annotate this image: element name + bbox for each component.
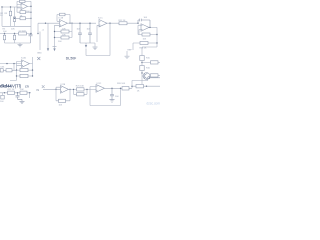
node I — [69, 23, 70, 24]
resistor R19 feedback — [17, 68, 33, 71]
svg-text:10K: 10K — [20, 89, 24, 91]
resistor R13 feedback — [138, 25, 157, 36]
op-amp input polarity marks — [22, 5, 143, 92]
wire U3 non-inverting bias — [97, 25, 99, 42]
node J1 — [10, 6, 11, 7]
svg-text:10K: 10K — [143, 38, 147, 40]
node AL — [111, 88, 112, 89]
svg-text:IC2A: IC2A — [21, 57, 26, 60]
node AE — [17, 92, 18, 93]
ground — [125, 51, 130, 59]
node F — [14, 33, 15, 34]
node G — [19, 33, 20, 34]
resistor R18 — [151, 74, 161, 77]
U3 marks — [99, 21, 102, 25]
wire drop x14 — [13, 64, 15, 71]
transistor Q1 — [142, 73, 150, 80]
node AA — [32, 75, 33, 76]
resistor R2 — [13, 17, 15, 22]
svg-text:R15: R15 — [146, 57, 151, 59]
op-amp U1 — [21, 3, 28, 10]
op-amp U4 — [141, 24, 149, 31]
wire lower-left input bus — [0, 63, 22, 65]
wire riser x132 — [132, 79, 148, 86]
node E — [4, 33, 5, 34]
resistor R11 — [55, 23, 73, 39]
svg-text:IC1B: IC1B — [59, 17, 64, 19]
svg-text:R14 1K: R14 1K — [140, 47, 148, 49]
svg-text:104: 104 — [115, 96, 119, 98]
svg-text:104: 104 — [144, 17, 148, 19]
capacitor C9 — [16, 93, 23, 101]
resistor R26 — [122, 87, 129, 90]
ground arrow 2 — [53, 48, 55, 51]
wire U7 output — [105, 86, 161, 88]
U1 marks — [21, 5, 24, 9]
wire drop x14.5 — [14, 7, 16, 26]
wire gnd rail left — [5, 43, 31, 44]
node Y — [13, 63, 14, 64]
resistor R20 — [17, 74, 33, 77]
node K — [54, 31, 55, 32]
ground arrow — [47, 48, 49, 51]
ground — [110, 100, 115, 102]
ground — [18, 45, 23, 47]
svg-text:REF: REF — [128, 49, 133, 51]
node AB — [16, 69, 17, 70]
svg-text:.V(Tl): .V(Tl) — [11, 84, 22, 89]
wire U1 output — [28, 1, 32, 33]
resistor R8 — [13, 34, 15, 44]
resistor R1 — [9, 11, 11, 16]
svg-text:IC2B: IC2B — [61, 84, 66, 86]
svg-text:103: 103 — [59, 105, 63, 107]
node M — [71, 23, 72, 24]
node A — [30, 12, 31, 13]
node AI — [73, 89, 74, 90]
wire right rail — [142, 47, 157, 84]
ground — [20, 101, 25, 103]
node Z — [32, 69, 33, 70]
node C — [30, 18, 31, 19]
power cross 2 — [42, 85, 45, 88]
node B — [14, 18, 15, 19]
U4 marks — [141, 26, 144, 30]
svg-text:10K: 10K — [62, 35, 66, 37]
svg-text:R22 1K: R22 1K — [8, 89, 16, 91]
wire U2 non-inverting — [55, 25, 60, 46]
terminal J2 — [0, 69, 3, 72]
wire U4 inputs — [138, 25, 141, 34]
svg-text:CN1: CN1 — [0, 67, 5, 69]
wire gnd rail mid — [80, 43, 95, 47]
node P — [109, 23, 110, 24]
resistor R16 — [140, 66, 144, 71]
wire U5 inputs — [10, 62, 22, 81]
U7 marks — [96, 86, 99, 90]
svg-text:R25 10K: R25 10K — [76, 85, 85, 87]
svg-text:IC1C: IC1C — [98, 17, 103, 19]
node E2 — [30, 33, 31, 34]
wire bus2 — [0, 33, 31, 35]
svg-text:10K: 10K — [11, 28, 15, 30]
svg-text:dzsc.com: dzsc.com — [147, 101, 161, 105]
node H — [45, 23, 46, 24]
resistor R27 — [136, 85, 144, 88]
node N — [79, 23, 80, 24]
resistor R12 series — [119, 22, 127, 25]
svg-text:IN: IN — [37, 88, 40, 92]
resistor R23 — [20, 91, 27, 94]
svg-text:cn: cn — [25, 84, 29, 88]
power cross — [37, 57, 40, 60]
op-amp U5 — [22, 60, 30, 68]
node AJ — [86, 89, 87, 90]
wire IN to U6 — [43, 88, 61, 90]
node W pad — [148, 77, 160, 79]
node AN — [146, 86, 147, 87]
capacitor C8 — [1, 93, 4, 99]
svg-text:104: 104 — [3, 31, 7, 33]
svg-text:104: 104 — [0, 101, 4, 103]
svg-text:IC2C: IC2C — [97, 83, 102, 85]
node J0 — [1, 6, 2, 7]
op-amp U7 — [96, 85, 105, 93]
resistor R5 — [3, 34, 5, 44]
wire loop down right of U3 — [86, 23, 110, 55]
node AF — [29, 92, 30, 93]
resistor R25 — [77, 88, 85, 91]
node E3 — [37, 33, 38, 34]
resistor R24 feedback loop — [56, 87, 70, 102]
svg-text:R16: R16 — [146, 67, 151, 69]
node AH — [69, 89, 70, 90]
wire U5 output — [30, 57, 33, 76]
node X — [6, 63, 7, 64]
node V — [141, 72, 142, 73]
svg-text:GND: GND — [37, 53, 42, 55]
resistor R4 — [15, 17, 32, 20]
wire U1 non-inverting input — [17, 7, 21, 9]
svg-text:R26 10K: R26 10K — [117, 83, 126, 85]
svg-text:1K: 1K — [137, 90, 140, 92]
resistor R15 — [140, 56, 144, 61]
wire drop AF — [29, 93, 31, 98]
node D — [30, 6, 31, 7]
op-amp U2 — [60, 20, 68, 27]
op-amp U6 — [61, 86, 69, 94]
wire +5 drop — [39, 32, 41, 51]
capacitor C11 — [110, 88, 114, 99]
resistor R21 — [3, 69, 16, 72]
resistor R14 — [133, 42, 157, 51]
node O — [89, 23, 90, 24]
U2 marks — [59, 21, 62, 25]
ground arrow 3 — [85, 45, 87, 48]
wire left drop — [1, 7, 3, 26]
node L — [54, 37, 55, 38]
capacitor C5 — [78, 23, 82, 43]
svg-text:104: 104 — [58, 41, 62, 43]
node AK — [120, 88, 121, 89]
svg-text:+5: +5 — [42, 29, 45, 31]
wire signal bus y23 — [38, 22, 60, 24]
wire bus1 — [2, 25, 31, 27]
resistor R7 on bus2 — [19, 32, 27, 35]
svg-text:10K: 10K — [62, 29, 66, 31]
svg-text:1K: 1K — [0, 15, 3, 17]
node AG — [55, 89, 56, 90]
U5 marks — [21, 62, 24, 66]
wire U7 feedback loop — [90, 87, 121, 106]
capacitor C4 bar — [53, 46, 57, 48]
node AM — [131, 86, 132, 87]
svg-text:R12 1K: R12 1K — [119, 20, 127, 22]
svg-text:DL50F: DL50F — [66, 57, 76, 61]
wire U6 output — [69, 88, 97, 90]
wire U3 output — [107, 22, 138, 24]
node Q — [137, 23, 138, 24]
node R — [149, 27, 150, 28]
capacitor C6 — [88, 23, 92, 43]
wire drop x10.5 — [10, 7, 12, 26]
capacitor C2 — [29, 34, 33, 44]
resistor R17 — [142, 61, 160, 64]
capacitor C1 — [17, 5, 31, 14]
resistor R22 — [8, 91, 15, 94]
svg-text:C7 104: C7 104 — [19, 30, 27, 32]
resistor R9 feedback — [57, 13, 70, 23]
wire riser x38 — [37, 23, 39, 33]
node AC — [16, 75, 17, 76]
resistor R3 — [17, 0, 31, 2]
U6 marks — [60, 87, 63, 91]
wire U1 inverting input — [17, 1, 21, 4]
wire bottom bus — [0, 92, 31, 94]
wire U4 output — [149, 27, 157, 47]
ground — [93, 47, 98, 49]
resistor R10 — [55, 30, 73, 33]
node U — [141, 62, 142, 63]
op-amp U3 — [99, 20, 107, 27]
svg-text:R3: R3 — [5, 13, 9, 15]
wire input bus top-left — [2, 6, 20, 8]
capacitor C10 parallel — [74, 89, 88, 95]
node S — [156, 34, 157, 35]
node AD — [4, 92, 5, 93]
wire U2 output — [68, 22, 97, 24]
wire drop x48 — [47, 23, 49, 48]
capacitor C7 top of U4 — [138, 19, 150, 28]
node T — [156, 42, 157, 43]
